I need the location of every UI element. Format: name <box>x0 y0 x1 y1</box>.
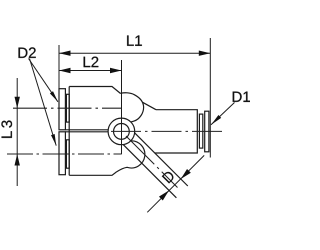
centerlines <box>7 108 222 187</box>
middle slot bottom line <box>65 131 108 133</box>
middle slot top line <box>65 129 108 131</box>
L1 dimension line <box>59 52 210 54</box>
arrow L3 top <box>15 97 20 109</box>
upper port collet <box>59 89 65 130</box>
boss top-right lobe arc <box>120 93 143 122</box>
serif foot for 1 in D1 <box>244 101 250 102</box>
arrow D2 leader 2 <box>51 134 56 146</box>
label L3 <box>1 121 12 138</box>
lower body bottom edge with chamfer <box>69 172 116 175</box>
main axis <box>111 130 222 132</box>
right port cap ring <box>199 114 202 148</box>
right port collet <box>205 111 209 152</box>
stem lower side <box>123 145 176 198</box>
L2 dimension line <box>59 70 122 72</box>
stem upper side <box>135 133 188 186</box>
boss circle outer <box>108 118 135 145</box>
boss circle inner <box>114 123 130 139</box>
arrow L1 left <box>59 51 71 56</box>
L3 dimension line <box>16 78 18 186</box>
extension line right (L1) <box>209 38 211 158</box>
serif foot for 1 in L1 <box>135 45 142 46</box>
label L1 <box>127 35 142 45</box>
boss bottom-left lobe arc <box>117 141 145 172</box>
extension line left (tube face) <box>58 45 60 89</box>
arrow L2 right <box>110 68 122 73</box>
D2 leader 1 <box>29 59 58 102</box>
body left face <box>68 87 70 176</box>
right port body <box>155 110 198 153</box>
arrow D1 <box>211 115 221 125</box>
arrow L2 left <box>59 68 71 73</box>
label L2 <box>84 57 99 67</box>
lower port cap ring <box>66 140 69 168</box>
label D <box>162 170 176 184</box>
chamfer line dome to right port <box>143 102 156 109</box>
D1 leader <box>211 103 235 125</box>
arrow D upper <box>181 169 191 179</box>
lower port collet <box>59 132 65 175</box>
label D2 <box>19 47 36 57</box>
D dimension line <box>147 155 204 212</box>
arrow D2 leader 1 <box>50 91 58 102</box>
arrow D lower <box>159 190 169 200</box>
extension line middle (L2 / circle axis) <box>121 60 123 154</box>
lower port axis <box>7 153 122 155</box>
upper body top edge with chamfer <box>69 87 120 94</box>
D2 leader 2 <box>30 59 57 146</box>
arrow L3 bottom <box>15 154 20 166</box>
stem axis <box>126 136 178 188</box>
label D1 <box>233 92 250 102</box>
upper port cap ring <box>66 94 69 122</box>
upper port axis <box>13 107 122 109</box>
arrow L1 right <box>199 51 211 56</box>
